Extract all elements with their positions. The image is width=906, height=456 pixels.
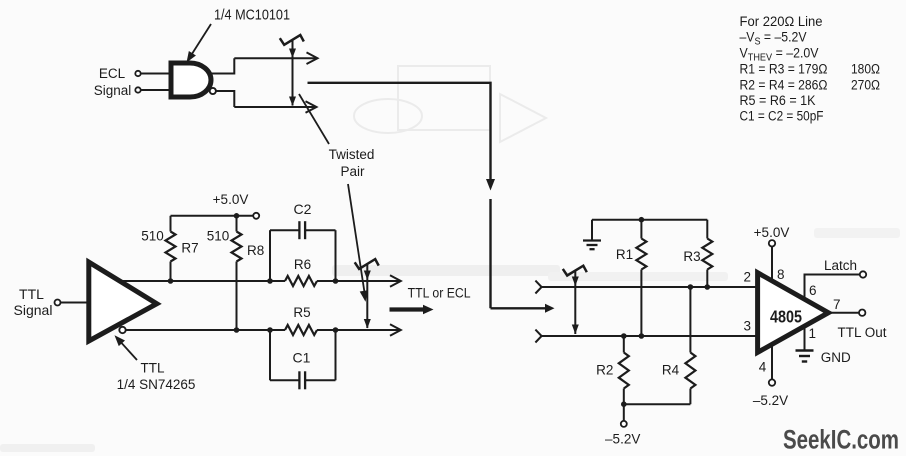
- svg-text:SeekIC.com: SeekIC.com: [783, 425, 899, 455]
- resistor R7 510: [170, 216, 172, 232]
- junction rail R8: [234, 213, 240, 219]
- resistor R4: [688, 284, 694, 290]
- wire top output line: [121, 280, 285, 282]
- capacitor C1: [269, 330, 271, 380]
- svg-text:C1 = C2 = 50pF: C1 = C2 = 50pF: [740, 109, 824, 124]
- svg-text:510: 510: [141, 229, 164, 244]
- leader arrow Twisted Pair lower: [348, 184, 365, 295]
- twist mark: [280, 35, 304, 45]
- resistor R3: [706, 220, 708, 239]
- svg-text:TTL or ECL: TTL or ECL: [408, 286, 471, 301]
- svg-text:Signal: Signal: [94, 83, 132, 98]
- watermark ghost rectangle: [398, 66, 490, 130]
- svg-text:1/4 MC10101: 1/4 MC10101: [214, 7, 290, 24]
- wire to receiver (feed arrow): [491, 307, 546, 309]
- twisted pair crossover line: [292, 41, 294, 106]
- U1 output bubble: [210, 88, 216, 94]
- output twisted pair line: [366, 265, 368, 329]
- leader line Twisted Pair upper: [299, 94, 329, 144]
- junction rail R1: [639, 217, 645, 223]
- svg-text:R6: R6: [294, 257, 311, 272]
- svg-text:1: 1: [809, 326, 817, 341]
- svg-text:R8: R8: [247, 243, 264, 258]
- pin 8 +5V: [771, 247, 773, 281]
- resistor R2: [621, 333, 627, 339]
- junction R1 bottom line: [639, 333, 645, 339]
- buffer U2 1/4 SN74265: [89, 262, 157, 341]
- watermark text band 3: [814, 228, 900, 238]
- junction box right bottom: [333, 327, 339, 333]
- svg-text:ECL: ECL: [99, 66, 126, 81]
- twist mark output: [355, 259, 379, 269]
- junction box left top: [267, 278, 273, 284]
- resistor R1: [640, 220, 642, 239]
- svg-text:R2: R2: [596, 363, 613, 378]
- input terminal circle B: [135, 87, 140, 92]
- TTL input terminal: [55, 300, 61, 306]
- junction R7 top line: [168, 278, 174, 284]
- svg-text:–5.2V: –5.2V: [753, 393, 788, 408]
- -5.2V terminal lower left: [623, 404, 625, 421]
- wire input B: [141, 89, 170, 91]
- +5V terminal: [253, 213, 259, 219]
- wire to receiver (vertical run): [489, 199, 491, 308]
- svg-text:510: 510: [207, 229, 230, 244]
- input terminal circle A: [135, 71, 140, 76]
- wire input A: [141, 73, 170, 75]
- svg-text:+5.0V: +5.0V: [213, 192, 249, 207]
- wire to receiver (top run): [308, 83, 491, 180]
- svg-text:TTL Out: TTL Out: [837, 325, 886, 340]
- +5V rail: [171, 215, 254, 217]
- junction R8 bottom line: [234, 327, 240, 333]
- svg-text:–5.2V: –5.2V: [605, 432, 640, 447]
- comparator U3 4805: [758, 273, 829, 353]
- junction box left bottom: [267, 327, 273, 333]
- ground rail wire: [592, 219, 707, 221]
- ground (termination rail): [591, 220, 593, 241]
- resistor R8 510: [236, 216, 238, 232]
- wire twisted pair top: [234, 57, 316, 59]
- svg-text:For 220Ω Line: For 220Ω Line: [740, 14, 823, 29]
- svg-text:4: 4: [759, 360, 767, 375]
- svg-text:+5.0V: +5.0V: [754, 225, 790, 240]
- input chevron top: [535, 281, 541, 294]
- wire input line bottom (pin 3): [542, 335, 758, 337]
- svg-text:R1: R1: [616, 247, 633, 262]
- wire U1 top output: [207, 58, 234, 73]
- U2 inverting output bubble: [119, 327, 125, 333]
- watermark ghost ellipse: [354, 99, 422, 133]
- svg-text:R2 = R4 = 286Ω: R2 = R4 = 286Ω: [740, 78, 828, 93]
- wire TTL input: [61, 302, 89, 304]
- wire input line top (pin 2): [542, 286, 758, 288]
- svg-text:7: 7: [833, 297, 841, 312]
- NAND gate U1 1/4 MC10101: [171, 63, 211, 97]
- svg-text:R1 = R3 = 179Ω: R1 = R3 = 179Ω: [740, 62, 828, 77]
- resistor R6: [285, 276, 317, 286]
- svg-text:8: 8: [777, 267, 785, 282]
- svg-text:Latch: Latch: [824, 258, 857, 273]
- svg-text:2: 2: [744, 270, 752, 285]
- svg-text:R3: R3: [683, 249, 700, 264]
- pin 6 Latch: [805, 275, 860, 298]
- svg-text:R4: R4: [662, 363, 680, 378]
- watermark text band 4: [0, 444, 95, 452]
- wire twisted pair bottom: [234, 106, 315, 108]
- svg-text:4805: 4805: [770, 307, 802, 327]
- wire U1 bottom output: [216, 91, 234, 107]
- twist mark receiver: [563, 266, 587, 276]
- svg-text:270Ω: 270Ω: [851, 78, 880, 93]
- junction R3 top line: [705, 284, 711, 290]
- svg-text:6: 6: [809, 283, 817, 298]
- svg-text:TTL: TTL: [140, 361, 164, 376]
- wire bottom output line: [126, 329, 285, 331]
- svg-text:1/4 SN74265: 1/4 SN74265: [117, 377, 196, 392]
- label pointer TTL 1/4 SN74265: [118, 339, 138, 361]
- junction box right top: [333, 278, 339, 284]
- svg-text:R5: R5: [293, 305, 310, 320]
- svg-text:TTL: TTL: [19, 286, 44, 302]
- svg-text:C1: C1: [293, 350, 311, 366]
- svg-text:R7: R7: [181, 241, 198, 256]
- pin 4 -5.2V: [771, 345, 773, 379]
- svg-text:Signal: Signal: [14, 302, 53, 318]
- pin 7 TTL Out: [830, 312, 859, 314]
- capacitor C2: [269, 230, 271, 281]
- svg-text:R5 = R6 = 1K: R5 = R6 = 1K: [740, 93, 816, 108]
- svg-text:Twisted: Twisted: [329, 147, 375, 162]
- svg-text:Pair: Pair: [340, 164, 365, 179]
- watermark text band 1: [332, 265, 560, 276]
- svg-text:GND: GND: [821, 350, 851, 365]
- watermark text band 2: [548, 272, 728, 281]
- leader arrow to U1: [190, 24, 211, 57]
- receiver twisted pair line: [574, 271, 576, 334]
- pin 1 GND: [804, 329, 806, 351]
- svg-text:180Ω: 180Ω: [851, 62, 880, 77]
- bold output arrow: [390, 307, 424, 311]
- watermark ghost triangle: [500, 94, 546, 142]
- resistor R5: [285, 325, 317, 335]
- input chevron bottom: [535, 330, 541, 343]
- wire R4 to R2 bottom: [624, 403, 691, 405]
- svg-text:C2: C2: [294, 201, 312, 217]
- junction R2 R4: [621, 401, 627, 407]
- svg-text:3: 3: [744, 319, 752, 334]
